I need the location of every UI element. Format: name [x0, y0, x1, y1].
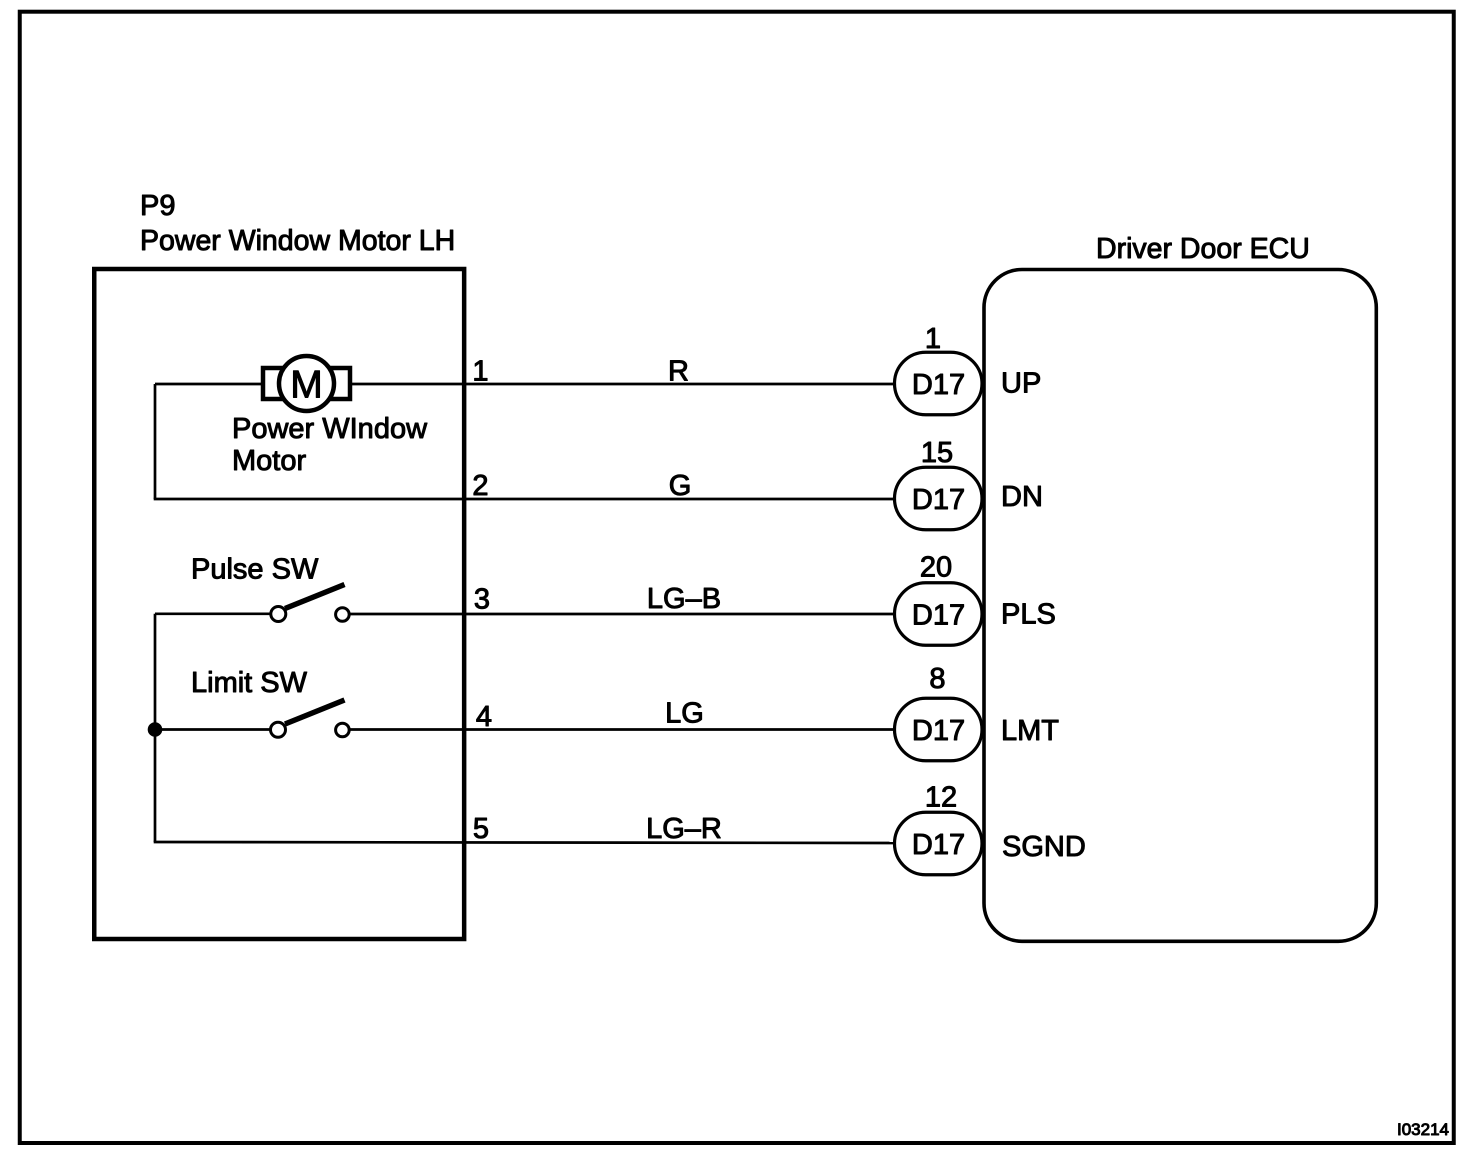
wire loop vertical motor — [154, 384, 157, 499]
svg-text:Motor: Motor — [232, 445, 306, 477]
wire 4 right segment to pin D17-8 — [349, 728, 896, 731]
svg-text:LMT: LMT — [1001, 715, 1059, 747]
svg-text:PLS: PLS — [1001, 599, 1056, 631]
svg-text:1: 1 — [925, 323, 941, 355]
svg-text:D17: D17 — [912, 829, 965, 861]
svg-text:20: 20 — [920, 552, 952, 584]
pin D17-1 UP — [895, 352, 983, 415]
svg-text:LG–R: LG–R — [646, 813, 722, 845]
pin D17-20 PLS — [895, 583, 983, 646]
svg-text:D17: D17 — [912, 600, 965, 632]
pin D17-8 LMT — [895, 698, 983, 761]
connector block P9 Power Window Motor LH — [94, 269, 464, 939]
svg-text:1: 1 — [472, 356, 488, 388]
pin D17-15 DN — [895, 467, 983, 530]
pin D17-12 SGND — [895, 812, 983, 875]
svg-text:I03214: I03214 — [1397, 1120, 1449, 1139]
svg-text:DN: DN — [1001, 481, 1043, 513]
wire 5 to pin D17-12 — [154, 842, 896, 843]
wire vertical bus left — [154, 614, 157, 842]
wire 2 to pin D17-15 — [154, 498, 896, 501]
svg-text:M: M — [290, 364, 323, 407]
motor M Power Window Motor — [263, 356, 350, 411]
svg-text:12: 12 — [925, 782, 957, 814]
svg-text:SGND: SGND — [1002, 831, 1086, 863]
svg-text:2: 2 — [472, 470, 488, 502]
svg-text:8: 8 — [929, 663, 945, 695]
svg-text:LG–B: LG–B — [647, 583, 721, 615]
switch Pulse SW — [271, 585, 349, 622]
wire 3 right segment to pin D17-20 — [349, 613, 896, 616]
svg-text:Driver Door ECU: Driver Door ECU — [1096, 233, 1310, 265]
svg-text:G: G — [669, 470, 692, 502]
svg-text:LG: LG — [665, 698, 704, 730]
svg-text:R: R — [668, 356, 689, 388]
svg-text:3: 3 — [474, 584, 490, 616]
svg-text:Power WIndow: Power WIndow — [232, 413, 428, 445]
svg-text:D17: D17 — [912, 715, 965, 747]
svg-text:Limit SW: Limit SW — [191, 667, 308, 699]
svg-text:D17: D17 — [912, 484, 965, 516]
svg-text:4: 4 — [476, 701, 492, 733]
junction node on wire 4 — [148, 722, 163, 737]
switch Limit SW — [271, 700, 350, 737]
svg-text:Pulse SW: Pulse SW — [191, 554, 319, 586]
wire 1 motor right to pin D17-1 — [350, 383, 896, 386]
ECU block Driver Door ECU — [984, 270, 1376, 942]
wire 3 left segment — [155, 612, 271, 615]
wire 1 motor left to loop — [155, 383, 263, 386]
svg-text:5: 5 — [473, 813, 489, 845]
svg-text:UP: UP — [1001, 368, 1041, 400]
svg-text:P9: P9 — [140, 190, 175, 222]
svg-text:15: 15 — [921, 437, 953, 469]
wire 4 left segment — [155, 728, 270, 731]
svg-text:D17: D17 — [912, 369, 965, 401]
svg-text:Power Window Motor LH: Power Window Motor LH — [140, 225, 455, 257]
